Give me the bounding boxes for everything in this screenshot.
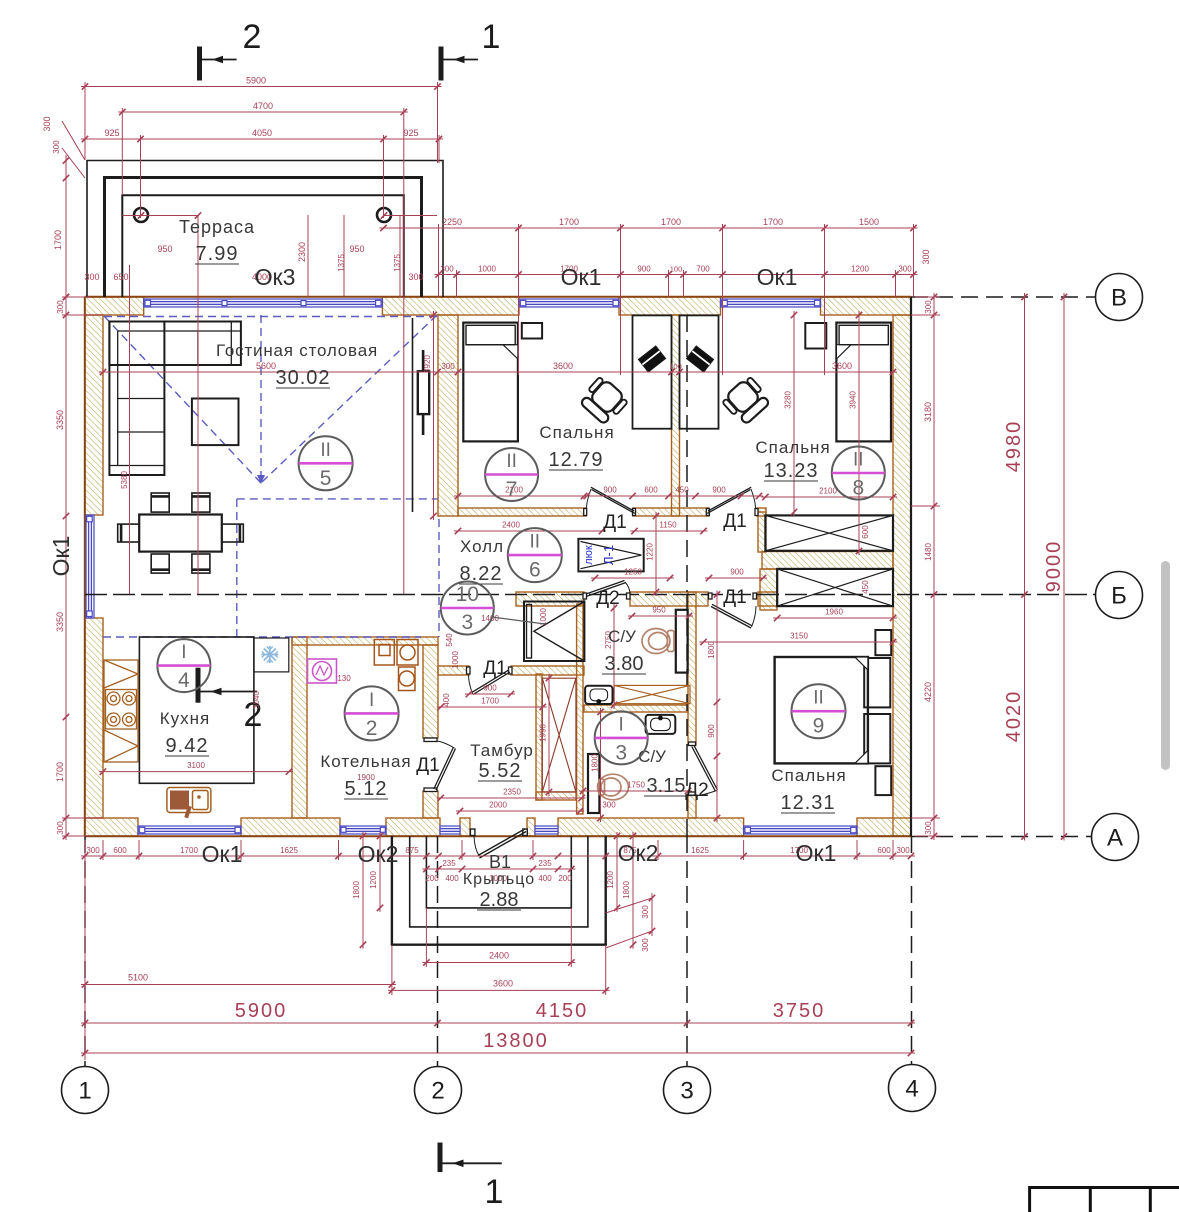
door leaf D1 boiler-tambour: [424, 738, 456, 792]
circle 9: [792, 684, 846, 738]
dimension lines: [62, 82, 1067, 1060]
svg-text:Д1: Д1: [723, 587, 746, 608]
svg-text:4: 4: [905, 1076, 918, 1103]
svg-text:Б: Б: [1111, 583, 1127, 610]
door labels: [416, 511, 746, 801]
axis circle A: [1092, 814, 1139, 861]
door leaf D2 S/U3.15: [689, 742, 718, 796]
svg-text:200: 200: [425, 874, 439, 883]
axis circle 2: [415, 1067, 462, 1114]
svg-text:10: 10: [456, 583, 479, 606]
svg-text:4700: 4700: [253, 101, 273, 111]
terrace column left: [134, 208, 148, 222]
terrace middle rect: [105, 178, 422, 298]
svg-text:5900: 5900: [246, 76, 266, 86]
svg-text:925: 925: [403, 128, 418, 138]
nightstand bedroom8: [805, 323, 826, 349]
circle 8: [832, 447, 885, 500]
svg-text:300: 300: [641, 938, 650, 952]
svg-text:4220: 4220: [923, 682, 933, 702]
axis 2 line: [437, 836, 439, 1066]
svg-text:5.52: 5.52: [479, 760, 522, 782]
svg-text:Д1: Д1: [416, 755, 439, 776]
wall exterior top: [85, 297, 144, 315]
svg-text:4980: 4980: [1003, 420, 1025, 473]
svg-text:450: 450: [861, 580, 870, 594]
svg-text:1960: 1960: [825, 608, 843, 617]
svg-text:875: 875: [405, 846, 419, 855]
svg-text:2250: 2250: [442, 217, 462, 227]
tv: [422, 350, 425, 435]
svg-text:7.99: 7.99: [196, 243, 239, 265]
wall bedroom7/bedroom8: [672, 315, 680, 516]
svg-text:Ок1: Ок1: [796, 840, 837, 866]
svg-text:1800: 1800: [352, 881, 361, 899]
dining chairs top: [151, 493, 169, 512]
svg-text:300: 300: [921, 249, 931, 264]
svg-text:3100: 3100: [187, 761, 205, 770]
svg-text:2300: 2300: [297, 242, 307, 262]
svg-text:8: 8: [852, 477, 864, 500]
svg-text:900: 900: [730, 568, 744, 577]
circle 5: [299, 436, 353, 490]
svg-text:II: II: [320, 440, 331, 461]
bed bedroom9 double: [775, 657, 891, 763]
ceiling dashed lines living room: [103, 315, 439, 637]
svg-text:600: 600: [113, 846, 127, 855]
svg-text:3600: 3600: [832, 361, 852, 371]
wall bathrooms divider: [584, 705, 688, 712]
ceiling slope left: [104, 316, 261, 483]
fridge zone: [254, 638, 289, 672]
svg-text:1375: 1375: [393, 254, 402, 272]
axis 3 line: [686, 315, 688, 592]
door leaf D1 bedroom8: [706, 487, 758, 515]
svg-text:Ок3: Ок3: [255, 264, 296, 290]
svg-text:200: 200: [558, 874, 572, 883]
dining chairs bottom: [151, 554, 169, 573]
svg-text:II: II: [506, 451, 517, 472]
svg-text:люк: люк: [583, 545, 595, 565]
kitchen zone dashed: [103, 636, 421, 638]
svg-text:300: 300: [440, 265, 454, 274]
circle 7: [485, 448, 538, 501]
svg-text:5900: 5900: [235, 1000, 288, 1022]
svg-text:1700: 1700: [53, 230, 63, 250]
room circles: [157, 436, 884, 764]
axis A line: [911, 836, 1092, 838]
svg-text:600: 600: [644, 486, 658, 495]
svg-text:3: 3: [615, 741, 627, 764]
svg-text:1480: 1480: [924, 543, 933, 561]
svg-text:Котельная: Котельная: [320, 752, 411, 771]
wall shaft bottom: [536, 792, 576, 800]
svg-text:235: 235: [442, 859, 456, 868]
svg-text:400: 400: [445, 874, 459, 883]
wall tambour north: [438, 666, 469, 675]
svg-text:900: 900: [483, 684, 497, 693]
svg-text:С/У: С/У: [638, 747, 666, 766]
svg-text:1: 1: [78, 1078, 91, 1105]
door leaf D1 bedroom7: [584, 487, 636, 515]
door leaf D1 tambour-hall: [467, 667, 513, 695]
svg-text:3940: 3940: [849, 391, 858, 409]
svg-text:5: 5: [320, 467, 332, 490]
svg-text:1200: 1200: [606, 871, 615, 889]
wall corridor: [458, 508, 586, 516]
nightstand bedroom9 top: [875, 630, 891, 655]
door leaf D2 hall-S/U3.80: [583, 581, 630, 600]
desk bedroom8: [680, 315, 719, 428]
svg-text:Ок2: Ок2: [618, 840, 659, 866]
wall wardrobe stub: [758, 512, 766, 552]
svg-text:540: 540: [445, 633, 454, 647]
svg-text:II: II: [813, 688, 824, 709]
lyuk blue text: [583, 545, 616, 565]
axis B(rus B) line: [85, 594, 1096, 596]
wardrobe X bedroom8: [765, 515, 893, 550]
axis B(rus V) line: [911, 296, 1096, 298]
svg-text:3.15: 3.15: [647, 775, 686, 797]
svg-text:300: 300: [42, 116, 52, 131]
svg-text:3600: 3600: [553, 361, 573, 371]
office chair bedroom7: [578, 375, 630, 426]
window Ok1 bedroom8 top: [721, 299, 821, 307]
svg-text:300: 300: [408, 272, 423, 282]
svg-text:С/У: С/У: [608, 627, 636, 646]
svg-text:2400: 2400: [502, 521, 520, 530]
svg-text:2: 2: [431, 1078, 444, 1105]
svg-text:600: 600: [877, 846, 891, 855]
wall living/bedroom7: [438, 315, 458, 516]
circle 4: [157, 639, 210, 692]
svg-text:Спальня: Спальня: [771, 766, 846, 785]
svg-text:900: 900: [603, 486, 617, 495]
zone boundary vertical: [236, 499, 238, 637]
svg-text:900: 900: [712, 486, 726, 495]
svg-text:9.42: 9.42: [166, 735, 209, 757]
svg-text:300: 300: [56, 821, 65, 835]
laptop bedroom8: [686, 346, 713, 372]
svg-text:Гостиная столовая: Гостиная столовая: [216, 341, 378, 360]
circle 3: [595, 711, 648, 764]
svg-text:В: В: [1111, 285, 1127, 312]
svg-text:1700: 1700: [180, 846, 198, 855]
wall boiler top: [292, 637, 438, 645]
svg-text:13.23: 13.23: [763, 460, 818, 482]
svg-text:II: II: [530, 532, 541, 553]
svg-text:2: 2: [243, 18, 262, 56]
svg-text:12.31: 12.31: [780, 792, 835, 814]
window Ok2 boiler bottom: [340, 826, 386, 834]
door B1: [470, 829, 527, 858]
svg-text:1220: 1220: [646, 543, 655, 561]
partition screen S/U 3.15: [588, 754, 599, 813]
svg-text:30.02: 30.02: [275, 367, 330, 389]
svg-text:1500: 1500: [859, 217, 879, 227]
svg-text:900: 900: [637, 265, 651, 274]
svg-text:2000: 2000: [489, 801, 507, 810]
tv console living room: [412, 318, 414, 512]
svg-text:I: I: [369, 690, 374, 711]
svg-text:Тамбур: Тамбур: [470, 741, 534, 760]
wall boiler left: [292, 637, 307, 818]
section marker 1 top: [441, 47, 478, 81]
svg-text:Д1: Д1: [603, 512, 626, 533]
axis circle 3: [664, 1067, 711, 1114]
toilet S/U 3.15: [598, 774, 629, 800]
svg-text:1990: 1990: [539, 724, 548, 742]
porch middle rect: [410, 836, 588, 927]
svg-text:Ок1: Ок1: [48, 536, 74, 577]
svg-text:Д2: Д2: [685, 780, 708, 801]
svg-text:4150: 4150: [536, 1000, 589, 1022]
svg-text:3180: 3180: [923, 402, 933, 422]
svg-text:II: II: [853, 450, 864, 471]
window Ok1 left wall: [86, 515, 94, 618]
wall shaft left: [536, 674, 542, 800]
desk bedroom7: [633, 315, 672, 428]
svg-text:6: 6: [529, 559, 541, 582]
dining chair left: [118, 524, 140, 542]
svg-text:2100: 2100: [819, 487, 837, 496]
svg-text:450: 450: [675, 486, 689, 495]
svg-text:1150: 1150: [659, 521, 677, 530]
AXES: [85, 297, 1096, 1066]
svg-text:3920: 3920: [423, 355, 432, 373]
ceiling ridge vertical: [260, 315, 262, 481]
wall bedroom9 west: [688, 592, 696, 745]
circle 6: [508, 528, 562, 582]
svg-text:1250: 1250: [624, 568, 642, 577]
building exterior contour: [85, 297, 911, 836]
svg-text:Л-1: Л-1: [601, 545, 616, 565]
porch outer rect: [392, 836, 606, 945]
area underlines: [165, 264, 835, 910]
svg-text:Крыльцо: Крыльцо: [463, 871, 535, 888]
svg-text:300: 300: [56, 300, 65, 314]
svg-text:300: 300: [898, 265, 912, 274]
svg-text:1700: 1700: [559, 217, 579, 227]
svg-text:100: 100: [669, 362, 682, 371]
svg-text:1700: 1700: [661, 217, 681, 227]
svg-text:700: 700: [696, 265, 710, 274]
svg-text:950: 950: [157, 244, 172, 254]
svg-text:3: 3: [680, 1078, 693, 1105]
svg-text:300: 300: [924, 821, 933, 835]
section marker 1 bottom: [440, 1143, 502, 1173]
kitchen sink: [167, 788, 211, 819]
svg-text:3350: 3350: [55, 410, 65, 430]
svg-text:4: 4: [178, 669, 190, 692]
svg-text:600: 600: [861, 525, 870, 539]
svg-text:3040: 3040: [252, 691, 261, 709]
wall between wardrobes: [762, 552, 893, 570]
axis circle 1: [62, 1067, 109, 1114]
porch: [392, 836, 606, 945]
svg-text:300: 300: [602, 801, 616, 810]
ceiling zone top dashed: [104, 316, 437, 318]
svg-text:1200: 1200: [369, 871, 378, 889]
zone boundary horizontal: [237, 498, 438, 500]
svg-text:130: 130: [337, 674, 351, 683]
svg-text:2.88: 2.88: [480, 889, 519, 911]
svg-text:Спальня: Спальня: [539, 423, 614, 442]
svg-text:1700: 1700: [55, 762, 65, 782]
svg-text:1375: 1375: [337, 254, 346, 272]
axis 1 line: [84, 836, 86, 1066]
svg-text:4050: 4050: [252, 128, 272, 138]
svg-text:1200: 1200: [851, 265, 869, 274]
svg-text:Ок1: Ок1: [202, 841, 243, 867]
axis circle B: [1096, 572, 1143, 619]
vent shaft X: [542, 678, 576, 792]
svg-text:1750: 1750: [627, 781, 645, 790]
svg-text:9: 9: [813, 715, 825, 738]
svg-text:1000: 1000: [451, 651, 460, 669]
boiler unit 1: [374, 640, 418, 691]
svg-text:5.12: 5.12: [345, 778, 388, 800]
circle 10 detail: [441, 582, 545, 635]
window labels: [48, 264, 836, 867]
svg-text:1800: 1800: [622, 881, 631, 899]
scrollbar: [1161, 561, 1170, 770]
svg-text:400: 400: [538, 874, 552, 883]
wall exterior left: [85, 315, 103, 515]
laptop bedroom7: [638, 346, 665, 372]
svg-text:2350: 2350: [503, 788, 521, 797]
nightstand bedroom9 bottom: [875, 766, 891, 795]
svg-text:300: 300: [896, 846, 910, 855]
svg-text:925: 925: [104, 128, 119, 138]
fridge snowflake: [261, 646, 278, 663]
svg-text:900: 900: [707, 724, 716, 738]
svg-text:Терраса: Терраса: [179, 217, 255, 237]
svg-text:235: 235: [538, 859, 552, 868]
svg-text:1700: 1700: [763, 217, 783, 227]
svg-text:13800: 13800: [483, 1030, 549, 1052]
svg-text:3600: 3600: [493, 979, 513, 989]
sliding door niche S/U 3.80 cabinet: [676, 610, 688, 673]
svg-text:5100: 5100: [128, 973, 148, 983]
svg-text:950: 950: [652, 606, 666, 615]
svg-text:300: 300: [441, 362, 455, 371]
svg-text:3: 3: [461, 611, 473, 634]
svg-text:Ок1: Ок1: [561, 264, 602, 290]
bed bedroom8: [836, 323, 891, 442]
ceiling arrow head: [257, 475, 265, 484]
kitchen zone line: [139, 637, 254, 783]
wall wardrobe2 left: [760, 569, 777, 610]
svg-text:2: 2: [366, 717, 378, 740]
svg-text:3280: 3280: [784, 391, 793, 409]
svg-text:300: 300: [641, 905, 650, 919]
coffee table: [192, 399, 239, 446]
svg-text:100: 100: [670, 265, 683, 274]
nightstand bedroom7: [522, 323, 542, 339]
title block corner: [1030, 1186, 1179, 1212]
svg-text:Спальня: Спальня: [755, 438, 830, 457]
porch inner rect: [426, 836, 571, 908]
hall closet 10: [524, 602, 584, 662]
svg-text:Ок2: Ок2: [358, 841, 399, 867]
window small left of door B1: [440, 826, 460, 834]
svg-text:12.79: 12.79: [548, 449, 603, 471]
svg-text:Д2: Д2: [596, 588, 619, 609]
svg-text:3150: 3150: [790, 632, 808, 641]
ceiling slope right: [262, 315, 437, 482]
terrace inner rect: [122, 195, 404, 297]
svg-text:7: 7: [506, 478, 518, 501]
svg-text:Кухня: Кухня: [160, 709, 211, 728]
svg-text:4020: 4020: [1003, 690, 1025, 743]
svg-text:5600: 5600: [256, 361, 276, 371]
window Ok1 bedroom9 bottom: [744, 826, 857, 834]
svg-text:650: 650: [113, 272, 128, 282]
svg-text:3350: 3350: [55, 612, 65, 632]
svg-text:1625: 1625: [280, 846, 298, 855]
svg-text:1000: 1000: [478, 265, 496, 274]
window Ok1 bedroom7 top: [519, 299, 619, 307]
wall shaft right / tambour east: [577, 604, 583, 814]
svg-text:I: I: [181, 642, 186, 663]
wall hall south (D2 wall): [516, 592, 584, 606]
svg-text:Д1: Д1: [483, 658, 506, 679]
svg-text:300: 300: [86, 846, 100, 855]
hall zone dashed vertical: [438, 519, 440, 637]
electric panel symbol: [308, 659, 337, 683]
toilet S/U 3.80: [642, 629, 674, 654]
window Ok3 terrace: [144, 299, 383, 307]
svg-text:300: 300: [52, 140, 61, 154]
dining chair right: [222, 524, 244, 542]
svg-text:9000: 9000: [1043, 540, 1065, 593]
svg-text:Ок1: Ок1: [757, 264, 798, 290]
svg-text:5380: 5380: [120, 471, 129, 489]
terrace column right: [377, 208, 391, 222]
washbasin S/U 3.15: [646, 715, 676, 734]
wardrobe X bedroom8 south: [777, 569, 893, 606]
section marker 2 top: [200, 47, 237, 81]
sofa corner: [109, 322, 241, 476]
svg-text:1800: 1800: [591, 754, 600, 772]
WALLS: [85, 297, 911, 836]
door leaf D1 hall-bedroom9: [709, 593, 757, 628]
svg-text:2400: 2400: [489, 951, 509, 961]
dining table: [139, 515, 222, 552]
terrace outer rect: [87, 161, 443, 298]
cabinet X S/U 3.80: [614, 685, 690, 703]
svg-text:300: 300: [84, 272, 99, 282]
svg-text:I: I: [619, 714, 624, 735]
svg-text:А: А: [1107, 825, 1123, 852]
wall exterior right: [893, 315, 911, 836]
svg-text:300: 300: [924, 300, 933, 314]
svg-text:950: 950: [349, 244, 364, 254]
svg-text:Д1: Д1: [723, 511, 746, 532]
svg-text:В1: В1: [489, 852, 511, 872]
wall boiler/tambour: [423, 645, 438, 738]
circle 2: [345, 686, 399, 740]
window small right of door B1: [535, 826, 558, 834]
svg-text:1: 1: [482, 18, 501, 56]
wall exterior bottom: [85, 818, 138, 836]
bed bedroom7: [463, 323, 518, 442]
svg-text:400: 400: [442, 693, 451, 707]
axis circle V: [1096, 274, 1143, 321]
kitchen counter stove: [104, 660, 138, 762]
svg-text:Холл: Холл: [460, 537, 504, 556]
